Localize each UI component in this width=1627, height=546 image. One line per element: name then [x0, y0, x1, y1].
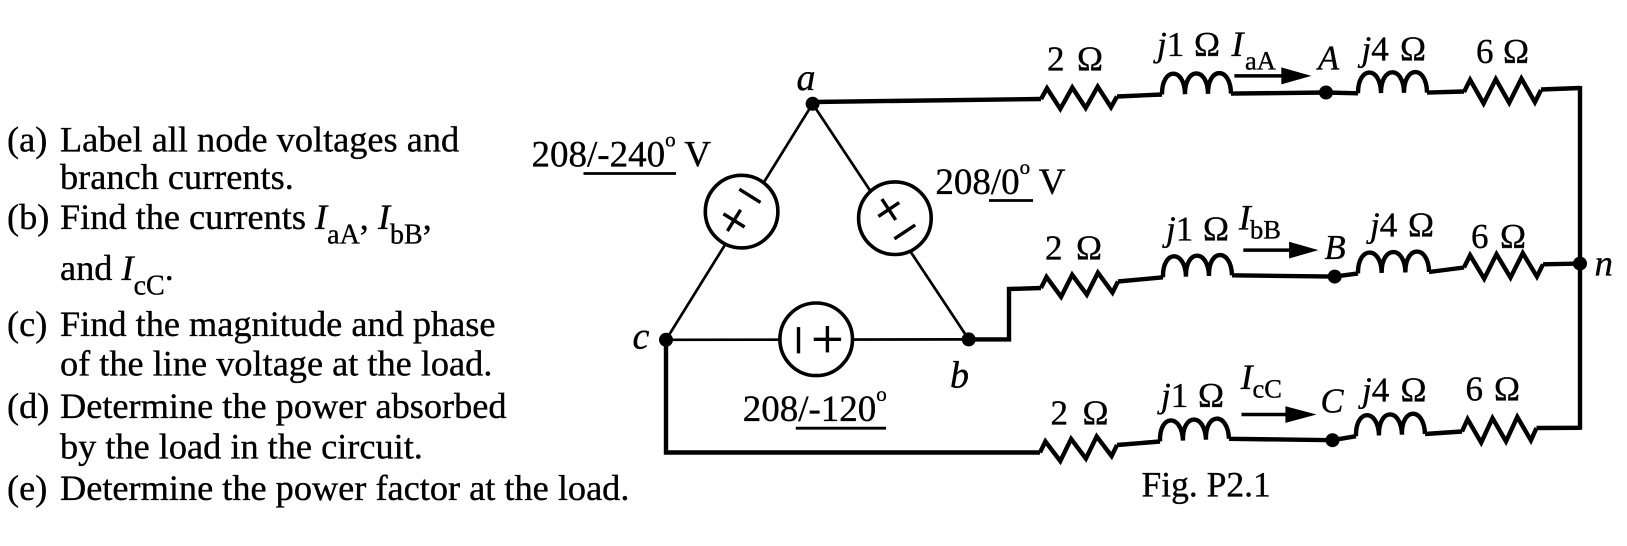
voltage source 208∠-120° (edge c-b)	[780, 303, 853, 376]
node b label	[950, 355, 969, 397]
wire j4Ω to 6Ω (top line)	[1427, 92, 1464, 93]
value label 6Ω (top)	[1476, 32, 1529, 71]
voltage source 208∠-240° (edge a-c)	[705, 175, 778, 248]
svg-text:bB: bB	[1250, 214, 1281, 244]
wire b step up to middle line	[966, 288, 1041, 339]
inductor j1Ω (middle line)	[1162, 255, 1232, 278]
svg-text:C: C	[1321, 383, 1345, 421]
node a	[806, 97, 820, 111]
svg-text:by the load in the circuit.: by the load in the circuit.	[60, 427, 423, 467]
value label 2Ω (bottom)	[1051, 393, 1109, 432]
inductor j4Ω (top line)	[1358, 72, 1427, 93]
svg-text:of the line voltage at the loa: of the line voltage at the load.	[60, 344, 492, 384]
value label 2Ω (middle)	[1045, 229, 1102, 268]
svg-text:Find the magnitude and phase: Find the magnitude and phase	[60, 304, 495, 344]
wire j4Ω to 6Ω (bottom line)	[1425, 432, 1462, 435]
current label IaA	[1231, 24, 1276, 76]
svg-text:2 Ω: 2 Ω	[1045, 229, 1102, 268]
svg-text:6 Ω: 6 Ω	[1466, 370, 1521, 409]
node n label	[1595, 244, 1614, 285]
wire 2Ω to j1Ω (top line)	[1117, 95, 1162, 97]
resistor 6Ω (bottom line)	[1462, 417, 1537, 443]
inductor j4Ω (middle line)	[1358, 251, 1429, 273]
value label j1Ω (bottom)	[1157, 376, 1224, 415]
value label 6Ω (bottom)	[1466, 370, 1521, 409]
svg-text:j1 Ω: j1 Ω	[1153, 25, 1220, 64]
resistor 2Ω (middle line)	[1041, 273, 1118, 297]
svg-text:2 Ω: 2 Ω	[1047, 40, 1103, 79]
svg-text:j4 Ω: j4 Ω	[1358, 30, 1427, 69]
value label j4Ω (top)	[1358, 30, 1427, 69]
wire node B to j4Ω (middle line)	[1335, 273, 1358, 276]
svg-text:aA: aA	[1245, 45, 1276, 75]
svg-text:(d): (d)	[7, 386, 49, 426]
svg-text:branch currents.: branch currents.	[60, 157, 294, 197]
resistor 6Ω (middle line)	[1464, 253, 1543, 279]
voltage source 208∠0° (edge a-b)	[859, 182, 932, 255]
svg-text:n: n	[1595, 244, 1614, 285]
svg-text:6 Ω: 6 Ω	[1476, 32, 1529, 71]
value label 6Ω (middle)	[1471, 217, 1526, 256]
current label IcC	[1240, 357, 1282, 404]
svg-text:j4 Ω: j4 Ω	[1366, 206, 1434, 245]
wire j4Ω to 6Ω (middle line)	[1429, 268, 1464, 273]
wire 2Ω to j1Ω (middle line)	[1118, 277, 1163, 281]
svg-text:cC: cC	[1253, 374, 1282, 404]
node B label	[1325, 229, 1346, 267]
value label 208∠0° V	[935, 155, 1065, 203]
svg-text:(c): (c)	[7, 304, 47, 344]
node n	[1573, 257, 1587, 271]
svg-text:Label all node voltages and: Label all node voltages and	[60, 119, 459, 159]
current arrow IbB	[1243, 242, 1318, 259]
svg-text:j1 Ω: j1 Ω	[1157, 376, 1224, 415]
wire j1Ω to node C (bottom line)	[1229, 439, 1333, 440]
svg-text:c: c	[633, 316, 650, 358]
wire node C to j4Ω (bottom line)	[1333, 436, 1357, 440]
svg-text:b: b	[950, 355, 969, 397]
node c	[659, 333, 673, 347]
value label 2Ω (top)	[1047, 40, 1103, 79]
svg-text:I: I	[1231, 24, 1246, 64]
resistor 2Ω (bottom line)	[1040, 436, 1117, 461]
wire delta edge c-b	[666, 338, 969, 341]
svg-text:Determine the power absorbed: Determine the power absorbed	[60, 386, 506, 426]
svg-text:Fig. P2.1: Fig. P2.1	[1142, 464, 1271, 504]
value label j1Ω (top)	[1153, 25, 1220, 64]
wire delta edge a-c	[666, 104, 813, 340]
inductor j1Ω (top line)	[1162, 73, 1231, 95]
svg-text:a: a	[797, 57, 816, 99]
node C label	[1321, 383, 1345, 421]
svg-text:(a): (a)	[7, 119, 47, 159]
wire 2Ω to j1Ω (bottom line)	[1117, 442, 1160, 446]
wire j1Ω to node A (top line)	[1231, 93, 1326, 94]
svg-text:and IcC​.: and IcC​.	[60, 248, 174, 302]
inductor j1Ω (bottom line)	[1159, 418, 1229, 441]
svg-text:B: B	[1325, 229, 1346, 267]
node a label	[797, 57, 816, 99]
node A label	[1316, 40, 1340, 78]
wire right vertical bus (A/n/C tie)	[1578, 86, 1582, 430]
svg-text:208/0o V: 208/0o V	[935, 155, 1065, 203]
inductor j4Ω (bottom line)	[1355, 413, 1425, 436]
node A	[1319, 86, 1333, 100]
value label 208∠-240° V	[532, 128, 712, 176]
node B	[1328, 270, 1342, 284]
node C	[1326, 433, 1340, 447]
wire delta edge a-b	[813, 104, 969, 340]
svg-text:208/-240o V: 208/-240o V	[532, 128, 712, 176]
current label IbB	[1238, 197, 1281, 244]
wire j1Ω to node B (middle line)	[1232, 275, 1335, 276]
svg-text:6 Ω: 6 Ω	[1471, 217, 1526, 256]
resistor 6Ω (top line)	[1464, 79, 1541, 104]
current arrow IaA	[1234, 67, 1311, 84]
wire 6Ω to right bus (top line)	[1541, 88, 1580, 90]
value label j4Ω (middle)	[1366, 206, 1434, 245]
wire 6Ω to node n (middle line)	[1543, 261, 1580, 266]
value label j4Ω (bottom)	[1358, 371, 1427, 410]
svg-text:j1 Ω: j1 Ω	[1162, 210, 1229, 249]
svg-text:A: A	[1316, 40, 1340, 78]
problem statement text	[7, 119, 629, 508]
current arrow IcC	[1242, 406, 1317, 423]
svg-text:Find the currents IaA​, IbB​,: Find the currents IaA​, IbB​,	[60, 197, 432, 251]
resistor 2Ω (top line)	[1041, 87, 1117, 109]
wire node A to j4Ω (top line)	[1326, 90, 1358, 95]
wire a to 2Ω resistor (top line)	[813, 99, 1041, 102]
wire 6Ω to right bus (bottom line)	[1537, 426, 1581, 431]
node c label	[633, 316, 650, 358]
svg-text:(b): (b)	[7, 197, 49, 237]
figure caption Fig. P2.1	[1142, 464, 1271, 504]
wire c down and along bottom to 2Ω	[666, 337, 1040, 453]
svg-text:j4 Ω: j4 Ω	[1358, 371, 1427, 410]
value label 208∠-120°	[743, 382, 887, 430]
node b	[962, 332, 976, 346]
svg-text:(e): (e)	[7, 468, 47, 508]
svg-text:2 Ω: 2 Ω	[1051, 393, 1109, 432]
value label j1Ω (middle)	[1162, 210, 1229, 249]
svg-text:208/-120o: 208/-120o	[743, 382, 887, 430]
svg-text:Determine the power factor at: Determine the power factor at the load.	[60, 468, 629, 508]
